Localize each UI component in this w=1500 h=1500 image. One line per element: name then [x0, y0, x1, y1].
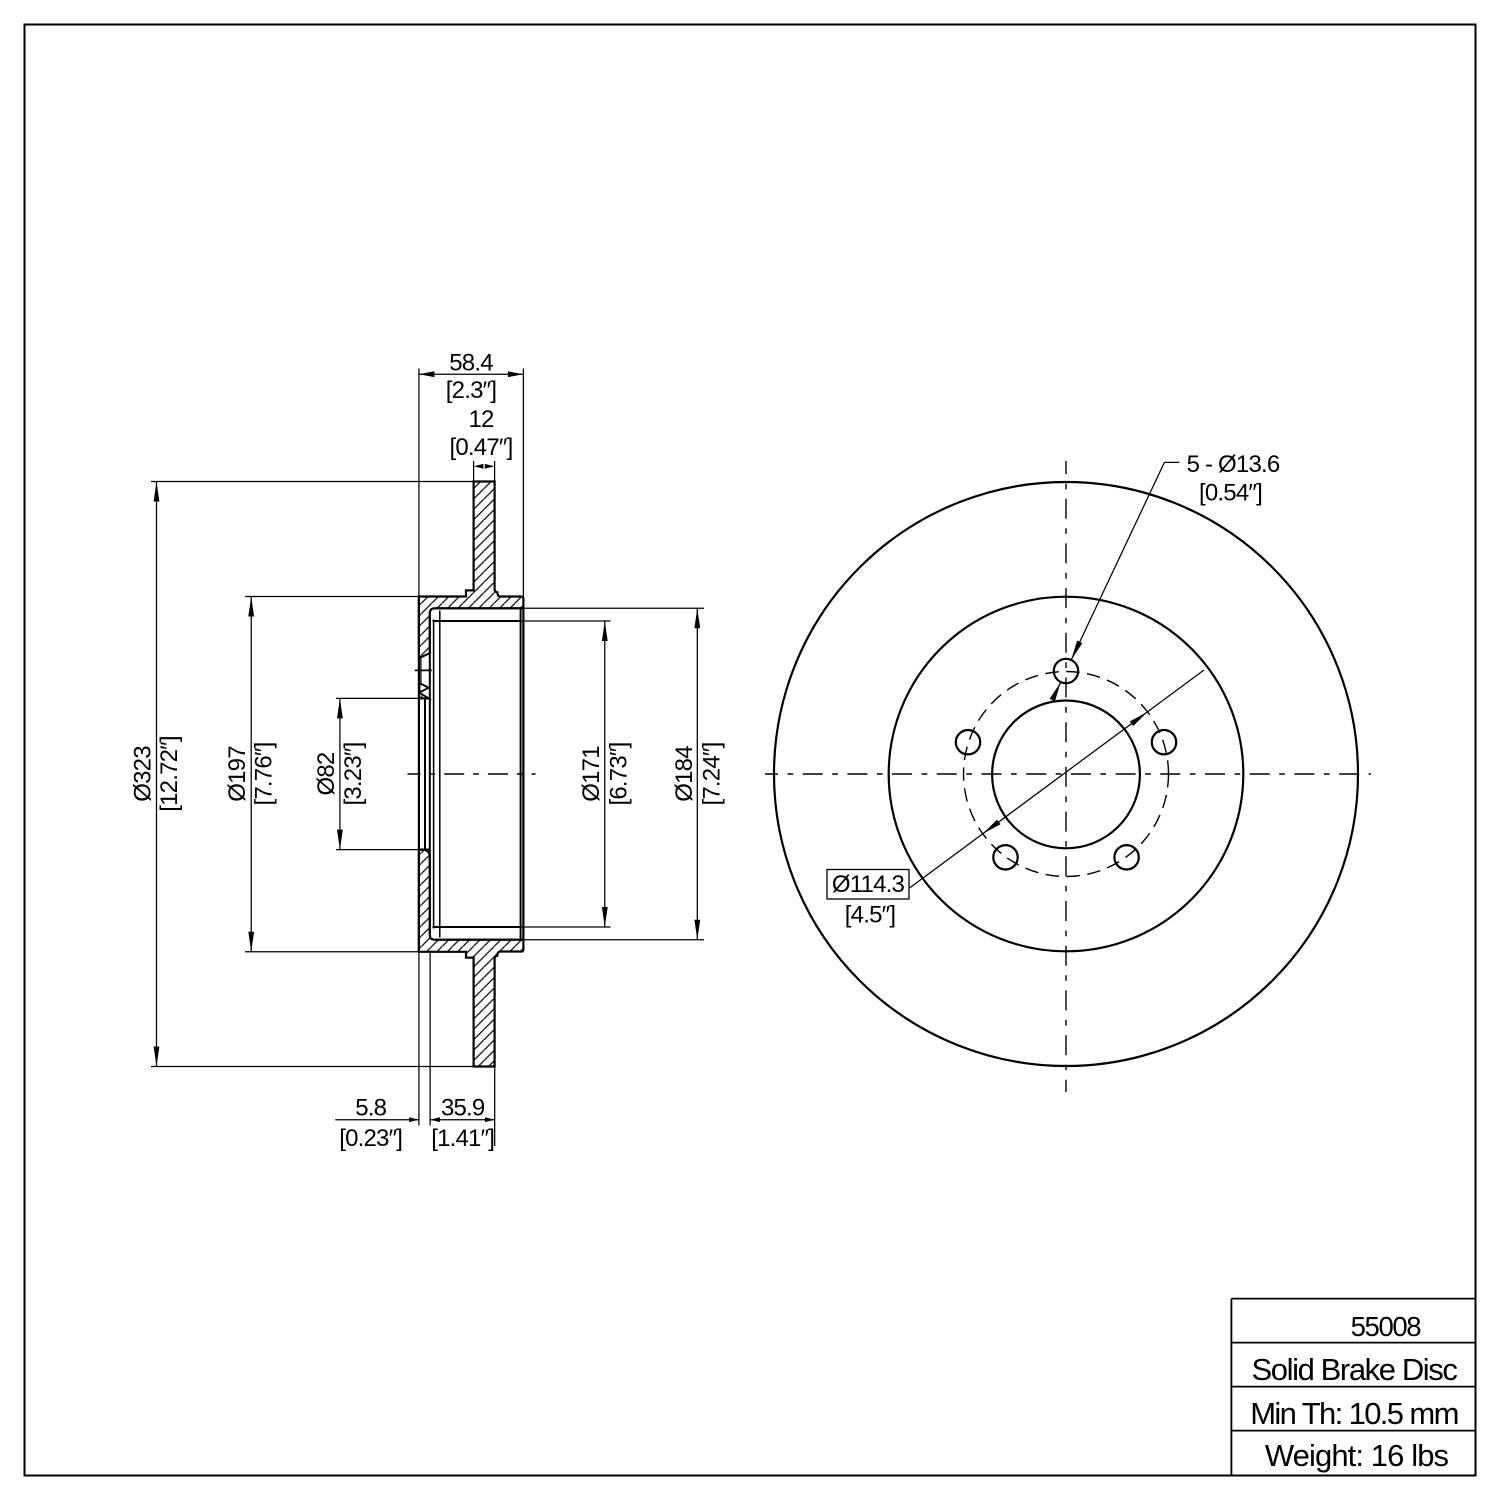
- inner friction circle: [889, 597, 1244, 952]
- bolt hole right: [1152, 730, 1176, 754]
- dimension line 35.9: [430, 1119, 495, 1121]
- bolt circle diameter leader line: [910, 670, 1205, 888]
- bolt hole leader horizontal segment: [1164, 461, 1179, 463]
- svg-text:[4.5″]: [4.5″]: [845, 902, 895, 929]
- vertical centerline: [1065, 461, 1067, 1092]
- bolt hole left: [956, 730, 980, 754]
- bolt hole top: [1054, 659, 1078, 683]
- arrowhead bolt hole leader upper: [1069, 641, 1083, 662]
- extension line 35.9 right: [494, 1067, 496, 1147]
- arrowhead 58.4 left: [419, 371, 435, 377]
- extension line 35.9 left: [429, 953, 431, 1126]
- svg-text:55008: 55008: [1351, 1311, 1422, 1342]
- extension line 5.8 left: [418, 952, 420, 1126]
- bolt hole bottom-right: [1114, 845, 1138, 869]
- hole chamfer wedge upper: [420, 683, 429, 693]
- bolt hole bottom-left: [993, 845, 1017, 869]
- center hub hole: [992, 701, 1140, 849]
- center pilot hole edges: [419, 697, 430, 699]
- horizontal centerline: [765, 773, 1371, 775]
- arrowhead dia82 bottom: [337, 830, 343, 850]
- svg-text:Solid Brake Disc: Solid Brake Disc: [1251, 1352, 1457, 1387]
- bolt hole center tick (upper): [415, 669, 432, 671]
- svg-text:Ø171: Ø171: [578, 746, 605, 802]
- extension line dia82 bottom: [336, 849, 419, 851]
- extension line 12 left: [473, 461, 475, 482]
- dimension line dia82: [339, 698, 341, 849]
- outer circle: [774, 482, 1358, 1066]
- drum interior bottom edge (dia 184): [435, 939, 521, 941]
- arrowhead dia197 top: [248, 597, 254, 617]
- arrowhead bolt hole leader lower: [1050, 681, 1064, 702]
- svg-text:35.9: 35.9: [441, 1095, 485, 1122]
- title block top border: [1231, 1298, 1475, 1300]
- svg-text:[0.47″]: [0.47″]: [450, 434, 513, 461]
- drum opening bottom edge (dia 171): [433, 926, 521, 928]
- extension line 58.4 left: [418, 369, 420, 597]
- pilot bore line: [424, 698, 426, 849]
- extension line dia323 bottom: [151, 1066, 474, 1068]
- dimension line dia171: [604, 621, 606, 927]
- title block left border: [1230, 1299, 1232, 1476]
- arrowhead 5.8: [409, 1117, 419, 1122]
- arrowhead 12 left: [474, 464, 484, 469]
- dimension line dia184: [696, 608, 698, 939]
- svg-text:[1.41″]: [1.41″]: [431, 1125, 494, 1152]
- dim 58.4 line: [419, 373, 524, 375]
- svg-text:5 - Ø13.6: 5 - Ø13.6: [1187, 451, 1280, 478]
- svg-text:[0.23″]: [0.23″]: [339, 1125, 402, 1152]
- extension line dia171 top: [521, 620, 611, 622]
- bcd label box: [827, 870, 909, 900]
- flange chamfer triangle upper (hatched): [419, 693, 429, 699]
- arrowhead 12 right: [485, 464, 495, 469]
- svg-text:[7.24″]: [7.24″]: [699, 743, 726, 806]
- extension line dia171 bottom: [521, 926, 611, 928]
- drum outer right face: [522, 608, 524, 939]
- extension line dia197 bottom: [245, 951, 419, 953]
- svg-text:Ø197: Ø197: [224, 746, 251, 802]
- arrowhead 35.9 left: [430, 1117, 440, 1122]
- arrowhead bcd lower left: [981, 820, 1001, 837]
- svg-text:Ø323: Ø323: [130, 746, 157, 802]
- friction ring upper section (hatched): [419, 482, 524, 659]
- arrowhead 58.4 right: [508, 371, 524, 377]
- svg-text:5.8: 5.8: [355, 1095, 386, 1122]
- svg-text:[7.76″]: [7.76″]: [251, 743, 278, 806]
- bolt hole leader tail below hole: [1052, 682, 1061, 700]
- centerline of section: [408, 773, 536, 775]
- title block row line 1: [1231, 1342, 1475, 1344]
- svg-text:[2.3″]: [2.3″]: [446, 377, 496, 404]
- arrowhead 35.9 right: [485, 1117, 495, 1122]
- arrowhead dia184 top: [694, 608, 700, 628]
- title block row line 3: [1231, 1430, 1475, 1432]
- arrowhead dia82 top: [337, 698, 343, 718]
- extension line dia197 top: [245, 596, 419, 598]
- drum lip line B: [439, 611, 441, 938]
- svg-text:Ø114.3: Ø114.3: [832, 871, 905, 898]
- title block row line 2: [1231, 1386, 1475, 1388]
- flange inner face line: [429, 613, 431, 934]
- extension line dia82 top: [336, 697, 419, 699]
- arrowhead dia171 top: [602, 621, 608, 641]
- svg-text:58.4: 58.4: [449, 350, 493, 377]
- svg-text:Ø184: Ø184: [671, 746, 698, 802]
- drum opening top edge (dia 171): [433, 620, 521, 622]
- arrowhead dia184 bottom: [694, 920, 700, 940]
- arrowhead dia323 top: [154, 482, 160, 502]
- hub face line: [418, 597, 420, 952]
- bolt circle (dashed): [964, 672, 1169, 877]
- svg-text:Min Th: 10.5 mm: Min Th: 10.5 mm: [1250, 1396, 1458, 1431]
- arrowhead dia171 bottom: [602, 907, 608, 927]
- svg-text:[3.23″]: [3.23″]: [340, 743, 367, 806]
- dimension line 5.8: [335, 1119, 419, 1121]
- bolt hole leader slanted segment: [1071, 462, 1164, 660]
- extension line 12 right: [494, 461, 496, 482]
- drum interior right wall inner edge: [520, 608, 522, 939]
- friction ring lower section (hatched): [419, 850, 524, 1067]
- arrowhead dia197 bottom: [248, 932, 254, 952]
- extension line 58.4 right: [522, 369, 524, 597]
- svg-text:Ø82: Ø82: [313, 752, 340, 795]
- bolt hole in flange (upper): [420, 658, 422, 683]
- dimension line dia323: [156, 482, 158, 1067]
- arrowhead dia323 bottom: [154, 1047, 160, 1067]
- drum interior top edge (dia 184): [435, 607, 521, 609]
- extension line dia184 bottom: [523, 939, 704, 941]
- extension line dia184 top: [523, 607, 704, 609]
- svg-text:[0.54″]: [0.54″]: [1199, 480, 1262, 507]
- drum lip line A: [433, 620, 435, 929]
- extension line dia323 top: [151, 481, 474, 483]
- svg-text:[12.72″]: [12.72″]: [156, 736, 183, 812]
- dimension line dia197: [250, 597, 252, 952]
- arrowhead bcd upper right: [1130, 710, 1150, 727]
- svg-text:[6.73″]: [6.73″]: [606, 743, 633, 806]
- svg-text:12: 12: [468, 406, 494, 433]
- svg-text:Weight: 16 lbs: Weight: 16 lbs: [1265, 1438, 1449, 1473]
